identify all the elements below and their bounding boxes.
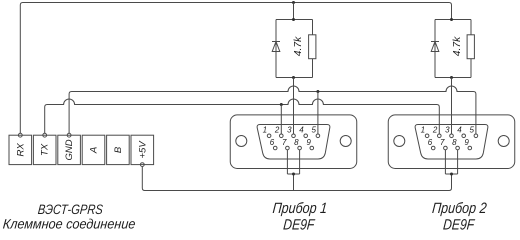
svg-text:Клеммное соединение: Клеммное соединение bbox=[2, 217, 136, 232]
svg-text:RX: RX bbox=[15, 143, 26, 157]
node top-rail junction to network 1 bbox=[292, 1, 295, 4]
node TX bus to pin2 X1 bbox=[280, 103, 283, 106]
svg-text:4: 4 bbox=[299, 125, 304, 134]
terminal block cell A bbox=[82, 135, 105, 164]
connector X1 pins row 1 bbox=[267, 134, 319, 138]
connector X2 mounting hole right bbox=[498, 136, 509, 147]
svg-text:6: 6 bbox=[270, 138, 275, 147]
connector X1 pin numbers 1-5 bbox=[263, 125, 317, 134]
svg-text:5: 5 bbox=[469, 125, 474, 134]
terminal block cell B bbox=[107, 135, 130, 164]
wire TX bus (terminal TX right to pin2 of both connectors) bbox=[45, 99, 440, 134]
resistor R2 bbox=[467, 35, 474, 59]
svg-text:3: 3 bbox=[445, 125, 450, 134]
connector X2 pins row 2 bbox=[431, 146, 471, 150]
svg-text:DE9F: DE9F bbox=[283, 216, 316, 233]
connector X1 D insert bbox=[257, 125, 330, 160]
svg-text:1: 1 bbox=[421, 125, 425, 134]
wire top rail to network 1 bbox=[293, 3, 295, 20]
connector X2 pins row 1 bbox=[425, 134, 477, 138]
connector X1 pin numbers 6-9 bbox=[270, 138, 312, 147]
svg-text:6: 6 bbox=[428, 138, 433, 147]
wire RX pull-up bus (terminal RX up and across top to networks) bbox=[20, 3, 451, 134]
terminal GND circle bbox=[67, 133, 71, 137]
svg-text:Прибор 1: Прибор 1 bbox=[272, 200, 328, 217]
svg-text:TX: TX bbox=[40, 143, 51, 156]
svg-text:4.7k: 4.7k bbox=[293, 36, 304, 57]
svg-text:2: 2 bbox=[274, 125, 280, 134]
connector X1 DE9F shell bbox=[230, 115, 357, 169]
wire network 1 to pin3 X1 bbox=[293, 78, 295, 135]
connector X1 mounting hole right bbox=[340, 136, 351, 147]
svg-text:7: 7 bbox=[282, 138, 287, 147]
svg-text:5: 5 bbox=[311, 125, 316, 134]
svg-text:B: B bbox=[113, 146, 124, 153]
resistor R1 bbox=[309, 35, 316, 59]
svg-text:A: A bbox=[89, 147, 100, 154]
connector X2 pin numbers 6-9 bbox=[428, 138, 470, 147]
terminal block cell TX bbox=[33, 135, 56, 164]
node pins 7-8 X2 bbox=[450, 173, 453, 176]
node network 1 bottom bbox=[292, 76, 295, 79]
wire GND bus (terminal GND right to pin5 of both connectors, humps over crossings) bbox=[69, 86, 476, 134]
svg-text:1: 1 bbox=[263, 125, 267, 134]
svg-text:Прибор 2: Прибор 2 bbox=[431, 200, 488, 217]
terminal +5V circle bbox=[140, 163, 144, 167]
connector X1 pins row 2 bbox=[273, 146, 313, 150]
svg-text:8: 8 bbox=[294, 138, 299, 147]
svg-text:DE9F: DE9F bbox=[442, 216, 475, 233]
wire network 2 to pin3 X2 bbox=[451, 78, 453, 135]
wire pins 7-8 X1 join bbox=[287, 150, 299, 191]
terminal block cell GND bbox=[58, 135, 81, 164]
wire +5V from terminal to connectors pins 7-8 bbox=[142, 167, 451, 191]
svg-text:+5V: +5V bbox=[137, 140, 148, 159]
diode VD2 bbox=[431, 42, 439, 52]
svg-text:4: 4 bbox=[457, 125, 462, 134]
diode VD1 bbox=[272, 42, 280, 52]
wire TX drop to pin2 X1 bbox=[280, 105, 282, 135]
svg-text:GND: GND bbox=[64, 139, 75, 160]
svg-text:ВЭСТ-GPRS: ВЭСТ-GPRS bbox=[37, 202, 103, 217]
node GND bus to pin5 X1 bbox=[316, 90, 319, 93]
node network 1 top bbox=[292, 18, 295, 21]
connector X2 pin numbers 1-5 bbox=[421, 125, 475, 134]
svg-text:4.7k: 4.7k bbox=[452, 36, 463, 57]
svg-text:9: 9 bbox=[464, 138, 469, 147]
terminal RX circle bbox=[18, 133, 22, 137]
svg-text:7: 7 bbox=[440, 138, 445, 147]
node network 2 bottom bbox=[450, 76, 453, 79]
connector X2 D insert bbox=[415, 125, 488, 160]
node network 2 top bbox=[450, 18, 453, 21]
network 2 box wires bbox=[435, 20, 471, 78]
terminal TX circle bbox=[43, 133, 47, 137]
connector X1 mounting hole left bbox=[236, 136, 247, 147]
svg-text:3: 3 bbox=[287, 125, 292, 134]
svg-text:2: 2 bbox=[432, 125, 438, 134]
svg-text:9: 9 bbox=[306, 138, 311, 147]
connector X2 mounting hole left bbox=[394, 136, 405, 147]
network 1 box wires bbox=[276, 20, 313, 78]
svg-text:8: 8 bbox=[452, 138, 457, 147]
wire GND drop to pin5 X1 bbox=[317, 92, 319, 135]
wire pins 7-8 X2 join bbox=[445, 150, 457, 174]
node pins 7-8 X1 bbox=[292, 173, 295, 176]
terminal block cell +5V bbox=[131, 135, 154, 164]
terminal block cell RX bbox=[9, 135, 32, 164]
connector X2 DE9F shell bbox=[388, 115, 515, 169]
